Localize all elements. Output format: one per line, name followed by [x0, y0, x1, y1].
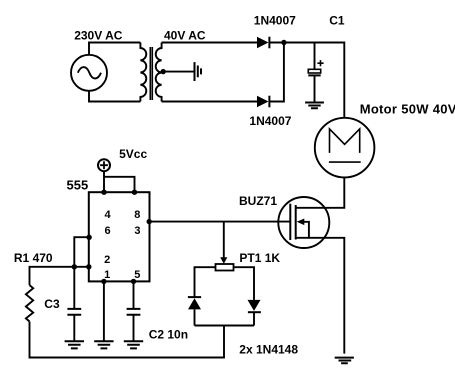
wire pin 6	[74, 237, 89, 267]
MOSFET Q1 BUZ71	[278, 197, 329, 248]
diode D2 1N4007 bottom	[257, 96, 269, 108]
transformer T1 secondary winding	[156, 43, 162, 102]
wire PT1 right to D4	[234, 267, 255, 300]
ground C2	[124, 341, 143, 348]
wire top rail to motor	[269, 43, 344, 118]
wire 5Vcc branch to pin 8	[104, 177, 135, 192]
svg-text:BUZ71: BUZ71	[239, 194, 277, 208]
diode D1 1N4007 top	[257, 37, 269, 49]
svg-text:40V AC: 40V AC	[164, 28, 206, 42]
junction dot pin 6	[86, 235, 91, 240]
wire center tap	[162, 71, 195, 73]
svg-text:C2 10n: C2 10n	[149, 327, 188, 341]
wire 5Vcc to pin 4	[103, 171, 105, 192]
wire source to ground	[296, 238, 345, 354]
svg-text:230V AC: 230V AC	[74, 28, 123, 42]
wire primary loop top	[89, 43, 140, 55]
arrowhead PT1 wiper	[220, 257, 227, 263]
wire D2 to junction	[269, 43, 284, 102]
junction dot center tap	[161, 69, 166, 74]
junction dot pin 5	[131, 279, 136, 284]
junction dot pin 8	[132, 190, 137, 195]
ground C1	[305, 103, 324, 109]
IC U1 555 body	[89, 192, 150, 281]
wire secondary top rail	[162, 42, 257, 44]
ground MOSFET source	[335, 358, 354, 364]
wire pin 2 to R1	[30, 267, 89, 285]
junction dot pin 4	[101, 190, 106, 195]
svg-text:5: 5	[134, 269, 140, 281]
svg-text:555: 555	[67, 177, 89, 192]
transformer T1 primary winding	[140, 43, 146, 102]
svg-text:8: 8	[134, 209, 140, 221]
wire gate	[149, 221, 290, 223]
wire diode loop bottom	[195, 325, 255, 327]
svg-text:PT1 1K: PT1 1K	[239, 251, 280, 265]
diode D3 1N4148 left	[188, 297, 201, 325]
wire motor to MOSFET drain	[296, 177, 345, 207]
wire secondary bottom rail	[162, 101, 257, 103]
svg-text:6: 6	[105, 225, 111, 237]
wire pin 5 to C2	[133, 281, 135, 309]
wire pin 1 to ground	[103, 281, 105, 341]
junction dot rectifier output	[281, 40, 286, 45]
junction dot node pin6/pin2	[72, 264, 77, 269]
plus sign C1	[317, 60, 323, 66]
svg-text:C1: C1	[329, 14, 345, 28]
junction dot pin 2	[86, 264, 91, 269]
svg-text:Motor 50W 40V: Motor 50W 40V	[360, 102, 455, 117]
wire R1 bottom rail	[30, 322, 225, 358]
potentiometer PT1 body	[216, 264, 234, 271]
wire primary loop bottom	[89, 91, 140, 102]
svg-text:5Vcc: 5Vcc	[119, 147, 147, 161]
junction dot pin 1	[101, 279, 106, 284]
svg-text:1N4007: 1N4007	[249, 114, 291, 128]
wire pin 3 to PT1 wiper	[223, 222, 225, 259]
motor M1	[315, 118, 375, 178]
transformer T1 core	[150, 47, 152, 100]
svg-text:R1 470: R1 470	[14, 251, 53, 265]
resistor R1 zigzag	[26, 285, 33, 321]
wire PT1 left to D3	[195, 267, 216, 297]
svg-text:2: 2	[104, 254, 110, 266]
svg-text:4: 4	[105, 209, 112, 221]
svg-text:C3: C3	[44, 297, 60, 311]
svg-text:3: 3	[134, 225, 140, 237]
capacitor C3	[67, 267, 81, 342]
ground C3	[65, 341, 84, 348]
power supply 5Vcc symbol	[98, 159, 110, 171]
ground pin 1	[94, 341, 113, 348]
AC source V1	[71, 55, 107, 91]
svg-text:2x 1N4148: 2x 1N4148	[239, 343, 298, 357]
svg-text:1N4007: 1N4007	[254, 14, 296, 28]
capacitor C1	[308, 43, 320, 103]
capacitor C2	[127, 309, 141, 341]
diode D4 1N4148 right	[248, 300, 261, 326]
junction dot pin 3	[147, 219, 152, 224]
ground center tap	[195, 62, 202, 81]
